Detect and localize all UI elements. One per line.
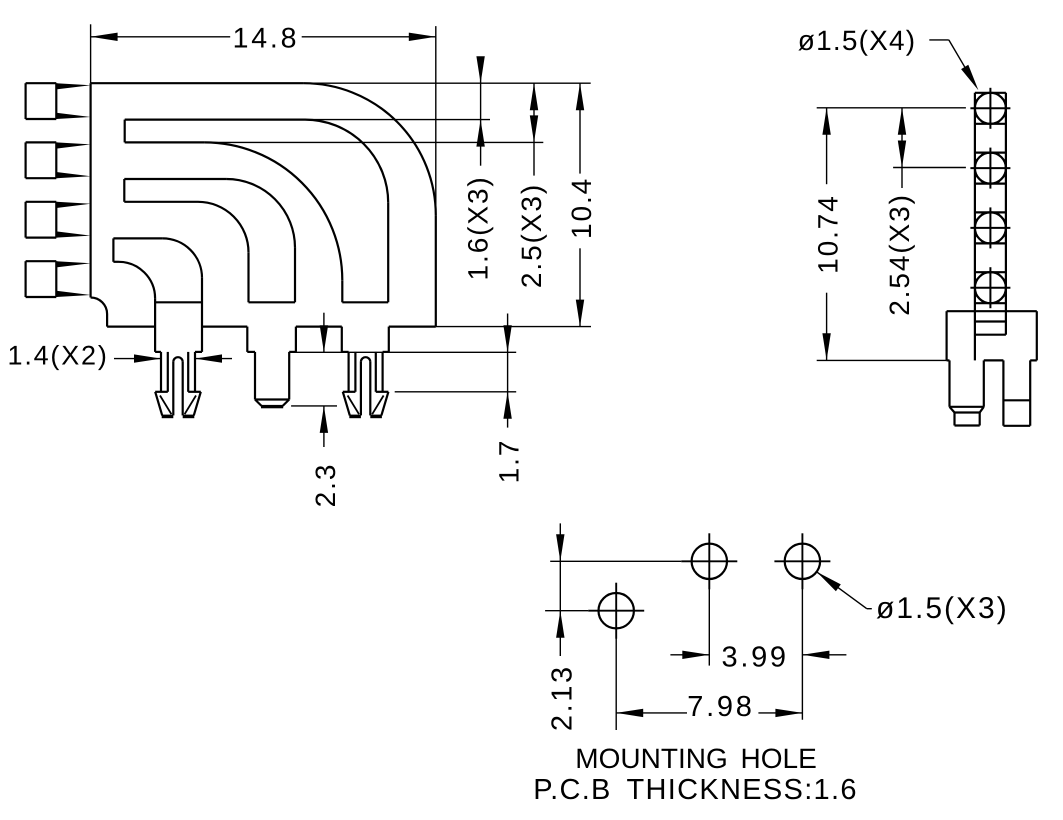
svg-text:14.8: 14.8 <box>233 23 300 55</box>
base internal line 2 <box>975 334 1006 336</box>
slot 1 left wall vertical <box>341 280 343 302</box>
mid block right side <box>295 327 297 352</box>
ext line LED1 center <box>817 107 966 109</box>
bottom edge seg 3 <box>296 326 342 328</box>
svg-text:1.6(X3): 1.6(X3) <box>463 175 494 280</box>
ext line below hole A <box>615 630 617 730</box>
slot 2 right wall vertical <box>294 248 296 303</box>
LED hole circle 3 front view <box>970 207 1010 248</box>
slot 3 right wall vertical <box>201 278 203 352</box>
svg-text:2.5(X3): 2.5(X3) <box>516 183 547 288</box>
right block bottom L <box>342 351 349 353</box>
ext line slot1 bottom <box>204 141 543 143</box>
ext line 14.8 left <box>90 24 92 83</box>
LED lens tab 2 <box>26 142 91 178</box>
peg flat tip <box>261 405 283 408</box>
ext line peg tip level <box>291 405 337 407</box>
svg-text:1.7: 1.7 <box>494 439 525 484</box>
dimension 1.6(X3) line <box>480 62 482 166</box>
bottom edge seg 2 <box>202 326 247 328</box>
svg-text:P.C.B THICKNESS:1.6: P.C.B THICKNESS:1.6 <box>533 774 858 806</box>
LED lens tab 3 <box>26 202 91 238</box>
base internal line 1 <box>975 320 1006 322</box>
ext line below hole B <box>708 581 710 666</box>
svg-text:7.98: 7.98 <box>687 691 754 723</box>
center peg chamfer line <box>255 398 289 400</box>
column left inner edge in base <box>974 311 976 360</box>
slot 1 closed left end <box>124 120 126 143</box>
LED hole circle 2 front view <box>970 148 1010 189</box>
svg-text:2.13: 2.13 <box>546 664 578 731</box>
base block left side <box>945 311 947 360</box>
front leg with chamfered foot <box>948 360 950 406</box>
right snap leg <box>343 352 389 418</box>
dimension 2.54(X3) line <box>901 108 903 188</box>
ext line top edge right <box>304 82 591 84</box>
leader arrow dia1.5(X3) <box>817 572 867 609</box>
ext line block bottom level <box>293 351 516 353</box>
mid block bottom R <box>289 351 296 353</box>
LED lens tab 4 <box>26 261 91 297</box>
slot 3 closed left end <box>112 238 114 261</box>
slot 2 bottom edge arc <box>198 202 249 253</box>
LED column left side <box>974 93 976 311</box>
base block right side <box>1036 311 1038 360</box>
dimension 2.13 line <box>559 523 561 656</box>
dimension 10.74 line <box>826 108 828 184</box>
ext line slot1 top <box>305 119 490 121</box>
dimension 14.8 line <box>91 36 231 38</box>
peg chamfer right <box>283 400 290 406</box>
slot 3 closed bottom end <box>155 301 202 303</box>
body left spine edge <box>89 83 91 297</box>
mounting hole B <box>681 533 737 589</box>
LED lens tab 1 <box>26 83 91 119</box>
mounting hole A <box>588 583 644 639</box>
svg-text:MOUNTING HOLE: MOUNTING HOLE <box>575 743 816 774</box>
mounting hole C <box>774 533 830 589</box>
ext line below hole C <box>801 581 803 720</box>
ext line LED2 center <box>893 167 966 169</box>
dimension 2.3 lower arrow <box>323 406 325 447</box>
slot 1 top edge arc <box>305 120 388 203</box>
center peg left side <box>254 352 256 400</box>
LED hole circle 4 front view <box>970 267 1010 308</box>
svg-text:3.99: 3.99 <box>722 642 789 674</box>
leader arrow dia1.5(X4) <box>929 39 949 41</box>
dimension 3.99 line <box>670 654 709 656</box>
slot 2 top edge arc <box>226 179 295 248</box>
slot 1 bottom edge arc <box>204 142 342 280</box>
slot 2 bottom edge straight <box>124 201 198 203</box>
center peg right side <box>288 352 290 400</box>
LED column right side <box>1005 93 1007 311</box>
body outer corner arc <box>304 83 436 215</box>
slot 3 left wall vertical <box>154 298 156 352</box>
left snap leg <box>155 352 201 418</box>
slot 2 closed left end <box>123 179 125 202</box>
slot 2 top edge straight <box>124 178 226 180</box>
bottom edge seg 1 <box>107 326 155 328</box>
right block right side <box>388 327 390 352</box>
dimension 7.98 line <box>616 712 687 714</box>
svg-text:1.4(X2): 1.4(X2) <box>8 341 109 371</box>
LED hole circle 1 front view <box>970 88 1010 129</box>
mid block left side <box>246 327 248 352</box>
base block bottom edge <box>947 359 950 361</box>
ext line hole row B-C <box>550 560 681 562</box>
slot 1 closed bottom end <box>342 301 388 303</box>
dimension 2.5(X3) line <box>533 83 535 175</box>
column right inner edge in base <box>1005 311 1007 335</box>
bottom-left vertical <box>106 314 108 327</box>
dimension 1.4(X2) arrows <box>114 358 161 360</box>
dimension 2.3 upper arrow <box>323 313 325 353</box>
dimension 1.7 line <box>507 314 509 428</box>
ext line barb shoulder level <box>395 391 517 393</box>
slot 1 top edge straight <box>125 118 305 120</box>
rear leg <box>1002 360 1004 425</box>
peg chamfer left <box>255 400 262 406</box>
slot 1 right wall vertical <box>387 203 389 302</box>
svg-text:2.54(X3): 2.54(X3) <box>884 193 915 316</box>
ext line base bottom <box>817 359 947 361</box>
slot 3 bottom edge straight <box>113 261 118 263</box>
svg-text:ø1.5(X3): ø1.5(X3) <box>876 592 1009 625</box>
bottom edge seg 4 <box>389 326 436 328</box>
right block bottom R <box>383 351 389 353</box>
svg-text:10.4: 10.4 <box>566 177 597 239</box>
svg-text:2.3: 2.3 <box>310 463 341 508</box>
body right edge <box>435 215 437 326</box>
left block bottom L <box>155 351 161 353</box>
svg-text:10.74: 10.74 <box>813 194 844 274</box>
ext line hole row A <box>545 610 588 612</box>
slot 2 left wall vertical <box>247 252 249 302</box>
svg-text:ø1.5(X4): ø1.5(X4) <box>798 25 917 56</box>
slot 1 bottom edge straight <box>125 141 205 143</box>
left block bottom R <box>195 351 202 353</box>
right block left side <box>341 327 343 352</box>
dimension 10.4 line <box>579 83 581 173</box>
slot 3 top edge arc <box>163 238 202 277</box>
ext line 14.8 right <box>435 26 437 215</box>
slot 2 closed bottom end <box>249 301 296 303</box>
slot 3 bottom edge arc <box>119 262 156 299</box>
ext line bottom edge right <box>436 326 591 328</box>
mid block bottom L <box>247 351 255 353</box>
slot 3 top edge straight <box>113 237 162 239</box>
body top edge <box>91 82 304 84</box>
base block top edge <box>947 310 1037 312</box>
bottom-left corner arc <box>91 298 108 315</box>
